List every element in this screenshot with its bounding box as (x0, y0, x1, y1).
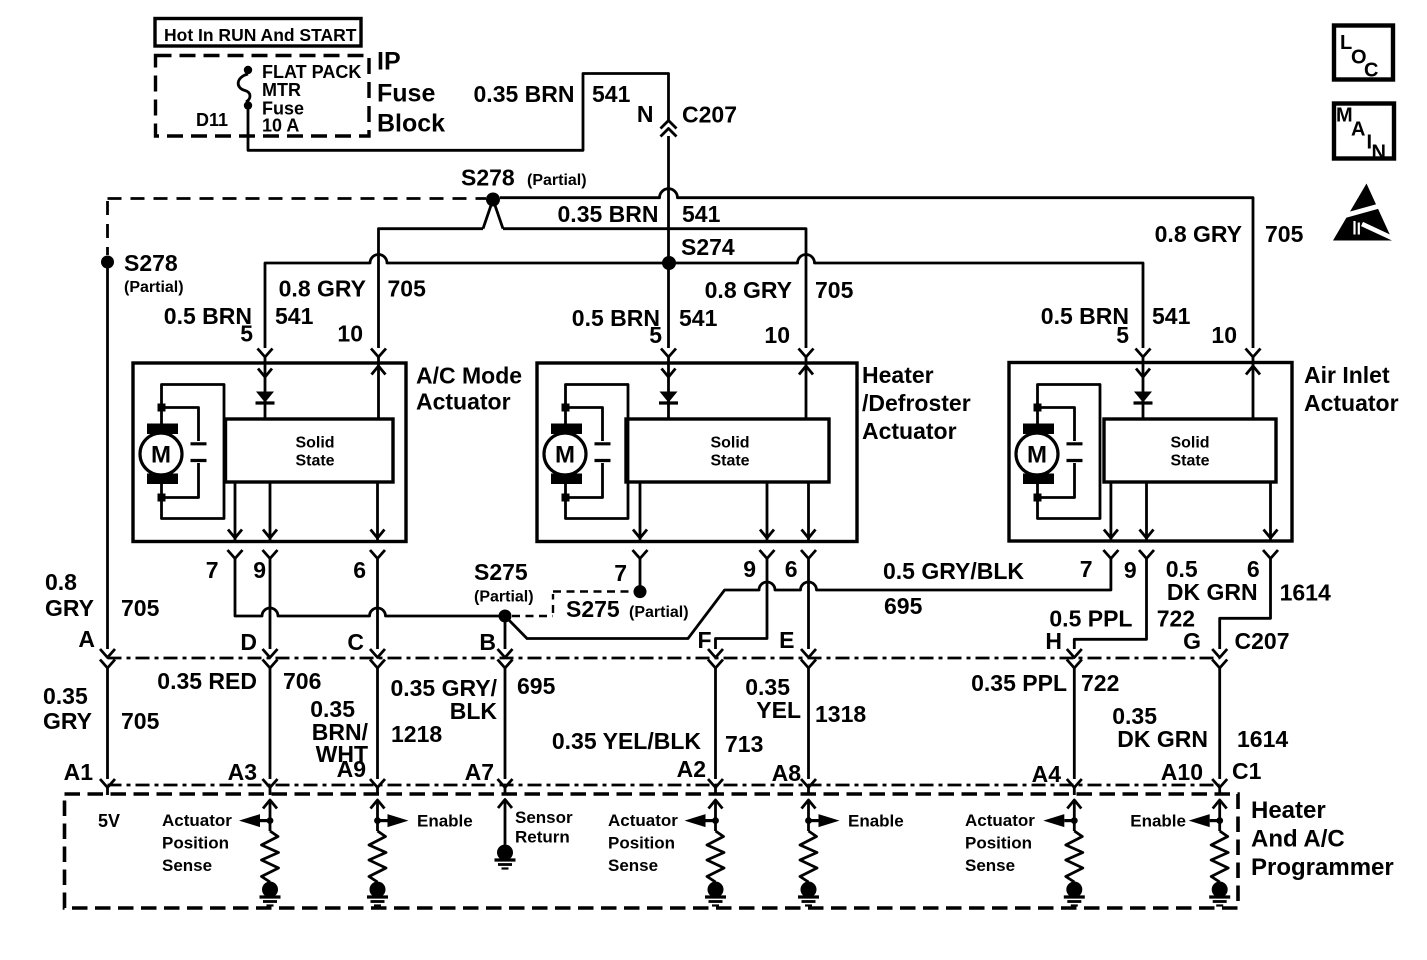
svg-text:705: 705 (121, 708, 160, 734)
svg-text:10: 10 (1211, 322, 1237, 348)
svg-text:Position: Position (608, 834, 675, 853)
svg-text:Fuse: Fuse (377, 80, 435, 108)
svg-text:5: 5 (1116, 322, 1129, 348)
svg-text:A9: A9 (337, 756, 366, 782)
svg-text:Sense: Sense (162, 856, 212, 875)
svg-text:Return: Return (515, 828, 570, 847)
svg-text:N: N (637, 101, 654, 127)
svg-text:N: N (1372, 142, 1386, 164)
svg-text:E: E (779, 627, 794, 653)
svg-text:A: A (1351, 119, 1365, 141)
svg-text:0.8: 0.8 (45, 569, 77, 595)
svg-text:G: G (1183, 628, 1201, 654)
svg-text:S274: S274 (681, 234, 735, 260)
svg-text:S275: S275 (474, 559, 528, 585)
svg-text:(Partial): (Partial) (527, 172, 587, 189)
svg-text:Actuator: Actuator (965, 811, 1035, 830)
svg-text:Sensor: Sensor (515, 808, 573, 827)
svg-text:GRY: GRY (45, 595, 94, 621)
svg-text:541: 541 (275, 303, 314, 329)
svg-text:State: State (295, 453, 334, 470)
svg-text:(Partial): (Partial) (474, 589, 534, 606)
svg-text:7: 7 (206, 557, 219, 583)
svg-text:Enable: Enable (417, 812, 473, 831)
svg-text:541: 541 (679, 305, 718, 331)
svg-text:0.8 GRY: 0.8 GRY (1155, 221, 1242, 247)
svg-text:B: B (479, 629, 496, 655)
svg-text:MTR: MTR (262, 80, 301, 100)
svg-text:A4: A4 (1032, 761, 1062, 787)
svg-text:YEL: YEL (756, 697, 801, 723)
svg-text:State: State (1170, 453, 1209, 470)
svg-text:(Partial): (Partial) (124, 279, 184, 296)
svg-text:State: State (710, 453, 749, 470)
svg-text:10: 10 (764, 322, 790, 348)
svg-text:0.35 PPL: 0.35 PPL (971, 670, 1067, 696)
svg-text:0.5 GRY/BLK: 0.5 GRY/BLK (883, 558, 1024, 584)
svg-text:A/C Mode: A/C Mode (416, 363, 522, 389)
svg-text:541: 541 (682, 201, 721, 227)
svg-text:Enable: Enable (1130, 812, 1186, 831)
svg-text:0.5 BRN: 0.5 BRN (164, 303, 252, 329)
svg-text:D: D (240, 629, 257, 655)
svg-text:Actuator: Actuator (1304, 390, 1399, 416)
svg-text:9: 9 (743, 556, 756, 582)
svg-text:6: 6 (353, 557, 366, 583)
svg-text:9: 9 (253, 557, 266, 583)
svg-text:Solid: Solid (710, 435, 749, 452)
svg-text:Actuator: Actuator (862, 418, 957, 444)
svg-text:5: 5 (649, 322, 662, 348)
svg-text:/Defroster: /Defroster (862, 390, 971, 416)
svg-text:A7: A7 (465, 759, 494, 785)
svg-text:9: 9 (1124, 557, 1137, 583)
svg-text:Heater: Heater (862, 362, 934, 388)
svg-text:5: 5 (240, 321, 253, 347)
svg-text:10 A: 10 A (262, 116, 299, 136)
svg-text:Block: Block (377, 110, 445, 138)
svg-text:DK GRN: DK GRN (1117, 726, 1208, 752)
svg-text:706: 706 (283, 668, 321, 694)
svg-text:705: 705 (388, 276, 427, 302)
svg-text:Actuator: Actuator (162, 811, 232, 830)
svg-text:Solid: Solid (295, 435, 334, 452)
svg-text:S278: S278 (461, 165, 515, 191)
svg-text:C: C (1364, 60, 1378, 82)
svg-text:6: 6 (785, 556, 798, 582)
svg-text:1614: 1614 (1237, 726, 1288, 752)
svg-text:S275: S275 (566, 596, 620, 622)
svg-text:S278: S278 (124, 250, 178, 276)
svg-text:Programmer: Programmer (1251, 854, 1394, 881)
svg-text:Hot In RUN And START: Hot In RUN And START (164, 25, 357, 45)
svg-text:Heater: Heater (1251, 797, 1326, 824)
svg-text:GRY: GRY (43, 708, 92, 734)
svg-text:Actuator: Actuator (416, 389, 511, 415)
svg-text:1318: 1318 (815, 701, 866, 727)
svg-text:705: 705 (815, 277, 854, 303)
svg-text:0.35 BRN: 0.35 BRN (558, 201, 659, 227)
svg-text:IP: IP (377, 48, 401, 76)
svg-text:Air Inlet: Air Inlet (1304, 362, 1390, 388)
svg-text:0.8 GRY: 0.8 GRY (705, 277, 792, 303)
svg-text:705: 705 (121, 595, 160, 621)
svg-text:Sense: Sense (608, 856, 658, 875)
svg-text:713: 713 (725, 731, 763, 757)
svg-text:541: 541 (1152, 303, 1191, 329)
svg-text:705: 705 (1265, 221, 1304, 247)
svg-text:C1: C1 (1232, 758, 1262, 784)
svg-text:7: 7 (1080, 556, 1093, 582)
svg-text:695: 695 (884, 593, 923, 619)
svg-text:Position: Position (162, 834, 229, 853)
svg-text:5V: 5V (98, 811, 120, 831)
svg-text:0.35: 0.35 (43, 683, 88, 709)
svg-text:541: 541 (592, 81, 631, 107)
svg-text:BLK: BLK (450, 698, 498, 724)
svg-text:C: C (347, 629, 364, 655)
svg-text:DK GRN: DK GRN (1167, 579, 1258, 605)
svg-text:0.8 GRY: 0.8 GRY (279, 276, 366, 302)
svg-text:Solid: Solid (1170, 435, 1209, 452)
svg-text:(Partial): (Partial) (629, 604, 689, 621)
svg-text:Position: Position (965, 834, 1032, 853)
svg-text:Enable: Enable (848, 812, 904, 831)
svg-text:A: A (78, 626, 95, 652)
svg-text:A3: A3 (228, 759, 257, 785)
svg-text:H: H (1045, 628, 1062, 654)
svg-text:C207: C207 (682, 102, 737, 128)
svg-text:A2: A2 (677, 756, 706, 782)
svg-text:0.35 YEL/BLK: 0.35 YEL/BLK (552, 728, 702, 754)
svg-text:And A/C: And A/C (1251, 826, 1345, 853)
svg-text:D11: D11 (196, 110, 228, 130)
svg-text:C207: C207 (1235, 628, 1290, 654)
svg-text:0.35 BRN: 0.35 BRN (474, 81, 575, 107)
svg-text:7: 7 (614, 560, 627, 586)
svg-text:A8: A8 (772, 760, 802, 786)
svg-text:722: 722 (1081, 670, 1119, 696)
svg-text:A1: A1 (64, 759, 94, 785)
svg-text:695: 695 (517, 673, 556, 699)
svg-text:10: 10 (337, 321, 363, 347)
svg-text:0.35 RED: 0.35 RED (157, 668, 257, 694)
svg-text:Sense: Sense (965, 856, 1015, 875)
svg-text:0.5 BRN: 0.5 BRN (572, 305, 660, 331)
svg-text:FLAT PACK: FLAT PACK (262, 62, 361, 82)
svg-text:1614: 1614 (1280, 580, 1331, 606)
svg-text:Actuator: Actuator (608, 811, 678, 830)
svg-text:A10: A10 (1161, 759, 1203, 785)
svg-text:1218: 1218 (391, 721, 442, 747)
